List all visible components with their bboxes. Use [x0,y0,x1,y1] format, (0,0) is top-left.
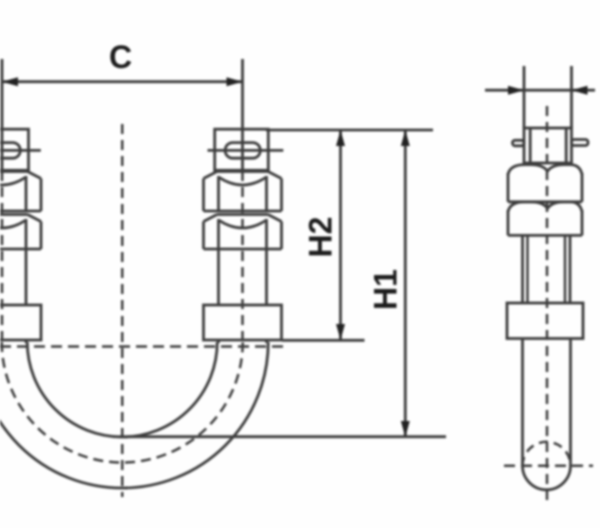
left leg plate vertical centerline [1,129,4,170]
side view bend circle dashed top arc [523,442,571,466]
side view plate inner edge left [529,128,532,163]
side view upper nut N1 [508,165,582,202]
side view rod end solid bottom arc [523,466,571,490]
dimension H2 line [339,130,342,340]
left leg dashed centerline [1,171,4,345]
svg-text:H1: H1 [368,269,404,310]
dimension C arrowhead right [227,77,243,86]
U-bend inner arc [27,342,217,437]
right leg upper nut N1 [204,172,282,212]
U-bend horizontal dashed centerline [0,345,287,348]
dimension H1 line [404,130,407,437]
H1 bottom extension line [119,435,446,438]
side view diameter extension/rod lines [524,66,572,128]
right leg slot centerline [208,149,284,152]
side view diameter arrowhead left [508,86,524,95]
dimension C extension line left [1,59,4,129]
side view threaded rod major diameter [523,235,571,303]
side view cotter pin right tab [572,140,589,146]
side view cotter pin left tab [513,140,525,146]
dimension H1 arrowhead top [401,130,410,146]
dimension H1 arrowhead bottom [401,421,410,437]
top extension line to H dimensions [266,129,433,132]
svg-text:H2: H2 [303,217,339,258]
U-bend outer arc [0,342,268,488]
side view square block [507,303,583,339]
dimension H2 arrowhead top [336,130,345,146]
left leg slot centerline [0,149,41,152]
svg-text:C: C [109,39,132,75]
dimension C arrowhead left [2,77,18,86]
right leg plate [215,129,269,170]
right leg plate vertical centerline [241,129,244,170]
side view plate [524,128,572,163]
left leg rod stub below block [25,340,28,343]
right leg lower nut N2 [204,215,282,250]
right leg rod stub below block [219,340,267,343]
left leg square block [0,305,41,340]
right leg square block [204,305,282,340]
side view diameter arrowhead right [572,86,588,95]
right leg cotter pin slot [225,143,260,159]
dimension C extension line right [241,59,244,131]
U-bend dashed centerline arc [2,342,243,463]
side view horizontal dashed centerline [504,465,593,468]
side view vertical dashed centerline [546,106,549,500]
dimension C line [2,80,243,83]
side view plate inner edge right [565,128,568,163]
left leg cotter pin slot [0,143,20,159]
dimension H2 arrowhead bottom [336,324,345,340]
side view threaded rod minor diameter [528,235,566,303]
right leg dashed centerline [241,171,244,345]
U-bend vertical dashed centerline [121,124,124,497]
left leg rod [25,249,28,305]
left leg upper nut N1 [0,172,41,212]
side view diameter dimension line [485,89,595,92]
left leg plate [0,129,29,170]
H2 bottom extension line [282,339,365,342]
left leg lower nut N2 [0,215,41,250]
right leg rod [219,249,267,305]
side view lower rod [523,339,571,467]
side view lower nut N2 [508,202,582,236]
